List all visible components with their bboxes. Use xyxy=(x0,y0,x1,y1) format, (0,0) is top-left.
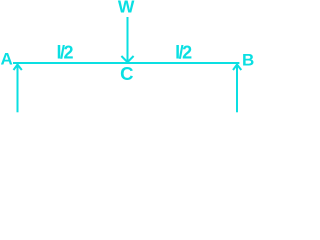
reaction arrow at B shaft xyxy=(236,65,238,112)
beam AB xyxy=(13,62,239,64)
svg-text:l/2: l/2 xyxy=(175,42,192,62)
reaction arrow at B arrowhead xyxy=(233,65,241,71)
reaction arrow at A shaft xyxy=(17,65,19,112)
svg-text:l/2: l/2 xyxy=(56,42,73,62)
svg-text:W: W xyxy=(118,0,135,16)
load W arrowhead xyxy=(121,56,133,62)
svg-text:A: A xyxy=(1,50,13,69)
load W arrow shaft xyxy=(127,17,129,62)
reaction arrow at A arrowhead xyxy=(14,65,22,71)
svg-text:B: B xyxy=(242,50,254,69)
svg-text:C: C xyxy=(120,63,133,84)
